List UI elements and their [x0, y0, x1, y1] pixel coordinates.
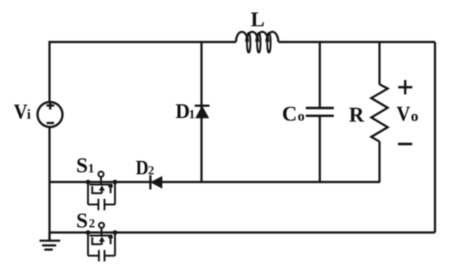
switch S1 (MOSFET with cap)	[88, 172, 115, 211]
wire right vertical	[434, 42, 436, 233]
label S1	[77, 158, 93, 172]
wire Co vertical top	[319, 42, 321, 108]
switch S2 arrow	[99, 236, 105, 241]
label L	[251, 13, 264, 27]
label R	[349, 108, 364, 122]
label Vi	[14, 105, 31, 119]
switch S2 (MOSFET with cap)	[88, 223, 115, 262]
wire S1/D2 horizontal	[50, 181, 381, 183]
junction dot S1 left	[86, 180, 91, 185]
source Vi	[38, 102, 63, 128]
label plus output	[398, 80, 412, 94]
wire R vertical bottom	[378, 142, 380, 183]
capacitor Co	[306, 108, 334, 116]
switch S1 arrow	[99, 185, 105, 190]
wire bottom rail	[50, 231, 436, 233]
junction dot S2 right	[113, 230, 118, 235]
label S2	[77, 214, 94, 228]
wire D1 vertical	[200, 42, 202, 182]
wire left vertical below Vi	[48, 127, 50, 240]
label minus output	[398, 143, 412, 146]
label D2	[136, 161, 154, 174]
junction dot S2 left	[86, 230, 91, 235]
junction dot S1 right	[113, 180, 118, 185]
resistor R	[371, 84, 387, 141]
wire Co vertical bottom	[319, 116, 321, 182]
diode D2	[150, 175, 161, 189]
label D1	[176, 104, 195, 118]
diode D1	[195, 106, 210, 118]
ground	[40, 233, 61, 250]
label Vo	[397, 107, 418, 121]
wire R vertical top	[378, 42, 380, 85]
wire top rail right	[279, 41, 436, 43]
wire top rail left	[50, 42, 237, 102]
label Co	[283, 107, 304, 121]
inductor L	[236, 32, 278, 53]
